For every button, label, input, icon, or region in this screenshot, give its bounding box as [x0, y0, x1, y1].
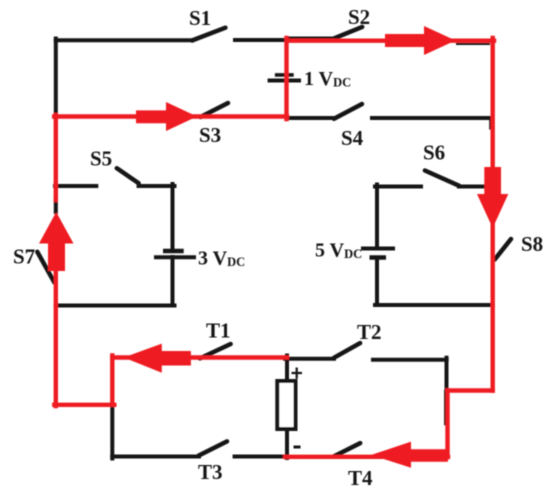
- svg-text:T4: T4: [348, 466, 373, 490]
- svg-text:S3: S3: [199, 123, 221, 147]
- svg-text:T2: T2: [357, 320, 382, 344]
- svg-text:S6: S6: [423, 141, 445, 165]
- svg-text:S5: S5: [90, 147, 112, 171]
- svg-text:S4: S4: [341, 126, 364, 150]
- svg-text:T1: T1: [206, 319, 231, 343]
- svg-text:S8: S8: [521, 232, 543, 256]
- svg-text:S1: S1: [189, 6, 211, 30]
- svg-text:S7: S7: [13, 245, 35, 269]
- svg-text:T3: T3: [198, 460, 223, 484]
- svg-text:S2: S2: [348, 5, 370, 29]
